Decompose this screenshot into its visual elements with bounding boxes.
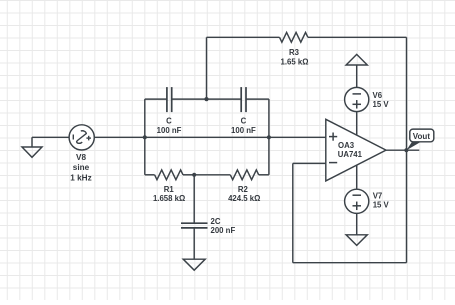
svg-text:R1: R1 — [164, 185, 175, 194]
ground — [183, 259, 205, 270]
svg-text:1.65 kΩ: 1.65 kΩ — [281, 57, 309, 66]
svg-text:15 V: 15 V — [373, 201, 390, 210]
wire — [356, 213, 358, 234]
svg-text:UA741: UA741 — [338, 150, 363, 159]
svg-text:100 nF: 100 nF — [231, 126, 256, 135]
svg-text:C: C — [241, 116, 247, 125]
svg-text:1.658 kΩ: 1.658 kΩ — [153, 194, 185, 203]
wire (inverting input) — [293, 162, 326, 164]
svg-text:V8: V8 — [76, 153, 86, 162]
wire — [94, 136, 325, 138]
wire — [207, 36, 280, 38]
label Vout — [406, 129, 433, 150]
svg-text:C: C — [166, 116, 172, 125]
capacitor 2C — [181, 175, 208, 259]
svg-text:15 V: 15 V — [373, 100, 390, 109]
wire (output) — [386, 149, 419, 151]
node B — [267, 135, 271, 139]
svg-text:R3: R3 — [289, 48, 300, 57]
svg-text:1 kHz: 1 kHz — [70, 173, 91, 182]
wire (feedback bottom) — [293, 262, 407, 264]
wire (feedback left) — [292, 163, 294, 262]
resistor R3 — [280, 32, 407, 42]
svg-text:2C: 2C — [211, 217, 221, 226]
node A — [143, 135, 147, 139]
wire (feedback right) — [406, 37, 408, 262]
node C — [204, 97, 208, 101]
svg-text:100 nF: 100 nF — [157, 126, 182, 135]
wire — [268, 99, 270, 175]
svg-text:V6: V6 — [373, 91, 383, 100]
wire — [144, 99, 146, 175]
svg-text:424.5 kΩ: 424.5 kΩ — [228, 194, 260, 203]
capacitor C1 — [145, 87, 207, 112]
ground — [22, 137, 42, 157]
svg-text:R2: R2 — [238, 185, 249, 194]
wire (V- pin) — [356, 165, 358, 189]
wire — [356, 65, 358, 88]
resistor R1 — [145, 170, 194, 180]
svg-text:Vout: Vout — [413, 132, 431, 141]
op-amp U1 — [326, 119, 386, 181]
capacitor C2 — [207, 87, 269, 112]
node D — [192, 173, 196, 177]
source V8 — [69, 125, 94, 150]
svg-text:sine: sine — [73, 163, 90, 172]
wire — [32, 136, 69, 138]
wire (V+ pin) — [356, 112, 358, 135]
source V7 — [345, 189, 369, 213]
resistor R2 — [194, 170, 269, 180]
node E (output) — [404, 148, 408, 152]
svg-text:200 nF: 200 nF — [211, 226, 236, 235]
source V6 — [345, 87, 369, 111]
svg-text:OA3: OA3 — [338, 141, 355, 150]
power arrow up — [346, 54, 367, 65]
power arrow down — [346, 235, 367, 246]
wire — [206, 37, 208, 99]
svg-text:V7: V7 — [373, 192, 383, 201]
